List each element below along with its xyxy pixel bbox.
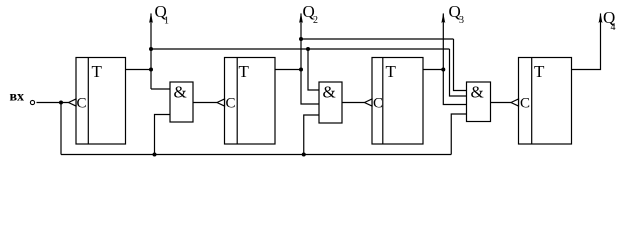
AND gate D2 body (319, 82, 342, 123)
svg-text:&: & (174, 83, 187, 102)
svg-text:1: 1 (164, 16, 169, 27)
wire: Q1 vertical with branch into AND D1 upper input (150, 14, 152, 90)
node Q2 dot on output wire (299, 68, 303, 72)
svg-text:2: 2 (313, 15, 318, 26)
wire: Q1 descent to AND D3 second input (450, 49, 467, 96)
node dot bus to D2 riser (302, 153, 306, 157)
svg-text:C: C (77, 96, 87, 112)
node Q3 dot on output wire (441, 68, 445, 72)
flip-flop U4 C dynamic-input triangle (511, 99, 519, 106)
svg-text:T: T (239, 62, 250, 81)
svg-text:3: 3 (459, 15, 464, 26)
wire: bus riser to AND D1 lower input (155, 115, 171, 155)
node dot Q1 line B tap (149, 47, 153, 51)
wire: bus riser to AND D2 lower input (304, 115, 319, 155)
flip-flop U1 body (76, 58, 126, 145)
wire: input terminal to C of U1 (37, 102, 69, 104)
svg-text:C: C (520, 96, 530, 112)
arrow head Q3 (441, 13, 445, 23)
wire: U3 output to node Q3 (423, 69, 443, 71)
flip-flop U3 C dynamic-input triangle (365, 99, 373, 106)
wire: Q2 vertical with branch into AND D2 middle input (301, 14, 319, 105)
wire: AND D1 output to C of U2 (193, 102, 217, 104)
wire: Q3 vertical with branch into AND D3 third input (443, 14, 466, 105)
node: input junction dot (59, 101, 63, 105)
input terminal circle (30, 100, 34, 104)
svg-text:T: T (92, 62, 103, 81)
flip-flop U3 body (372, 58, 423, 145)
svg-text:T: T (386, 62, 397, 81)
AND gate D3 body (467, 82, 491, 122)
svg-text:C: C (373, 96, 383, 112)
wire: U2 output to node Q2 (275, 69, 301, 71)
flip-flop U2 C dynamic-input triangle (217, 99, 225, 106)
wire: AND D3 output to C of U4 (491, 102, 512, 104)
arrow head Q2 (299, 13, 303, 23)
wire: U4 output up to Q4 arrow (572, 14, 601, 70)
node dot bus to D1 riser (153, 153, 157, 157)
node dot line B branch to D2 (306, 47, 310, 51)
flip-flop U1 C dynamic-input triangle (69, 99, 77, 106)
wire: Q2 descent to AND D3 top input (454, 39, 467, 91)
node Q1 dot on output wire (149, 68, 153, 72)
flip-flop U2 body (225, 58, 276, 145)
svg-text:C: C (226, 96, 236, 112)
wire: Q1 branch down to AND D2 top input (308, 49, 319, 90)
wire: line A carrying Q2 to the right (301, 38, 454, 40)
wire: bus riser to AND D3 lower input (451, 114, 466, 155)
svg-text:T: T (534, 62, 545, 81)
AND gate D1 body (170, 82, 193, 122)
svg-text:вх: вх (10, 90, 25, 105)
arrow head Q4 (599, 13, 603, 23)
flip-flop U4 body (519, 58, 572, 145)
node dot Q2 line A tap (299, 37, 303, 41)
svg-text:&: & (323, 83, 336, 102)
svg-text:4: 4 (611, 22, 616, 33)
wire: clock drop from input junction (60, 103, 62, 155)
wire: AND D2 output to C of U3 (342, 102, 365, 104)
svg-text:&: & (471, 83, 484, 102)
arrow head Q1 (149, 13, 153, 23)
wire: line B carrying Q1 to the right (151, 48, 450, 50)
wire: bottom clock bus (61, 154, 451, 156)
wire: U1 output to node Q1 (126, 69, 152, 71)
